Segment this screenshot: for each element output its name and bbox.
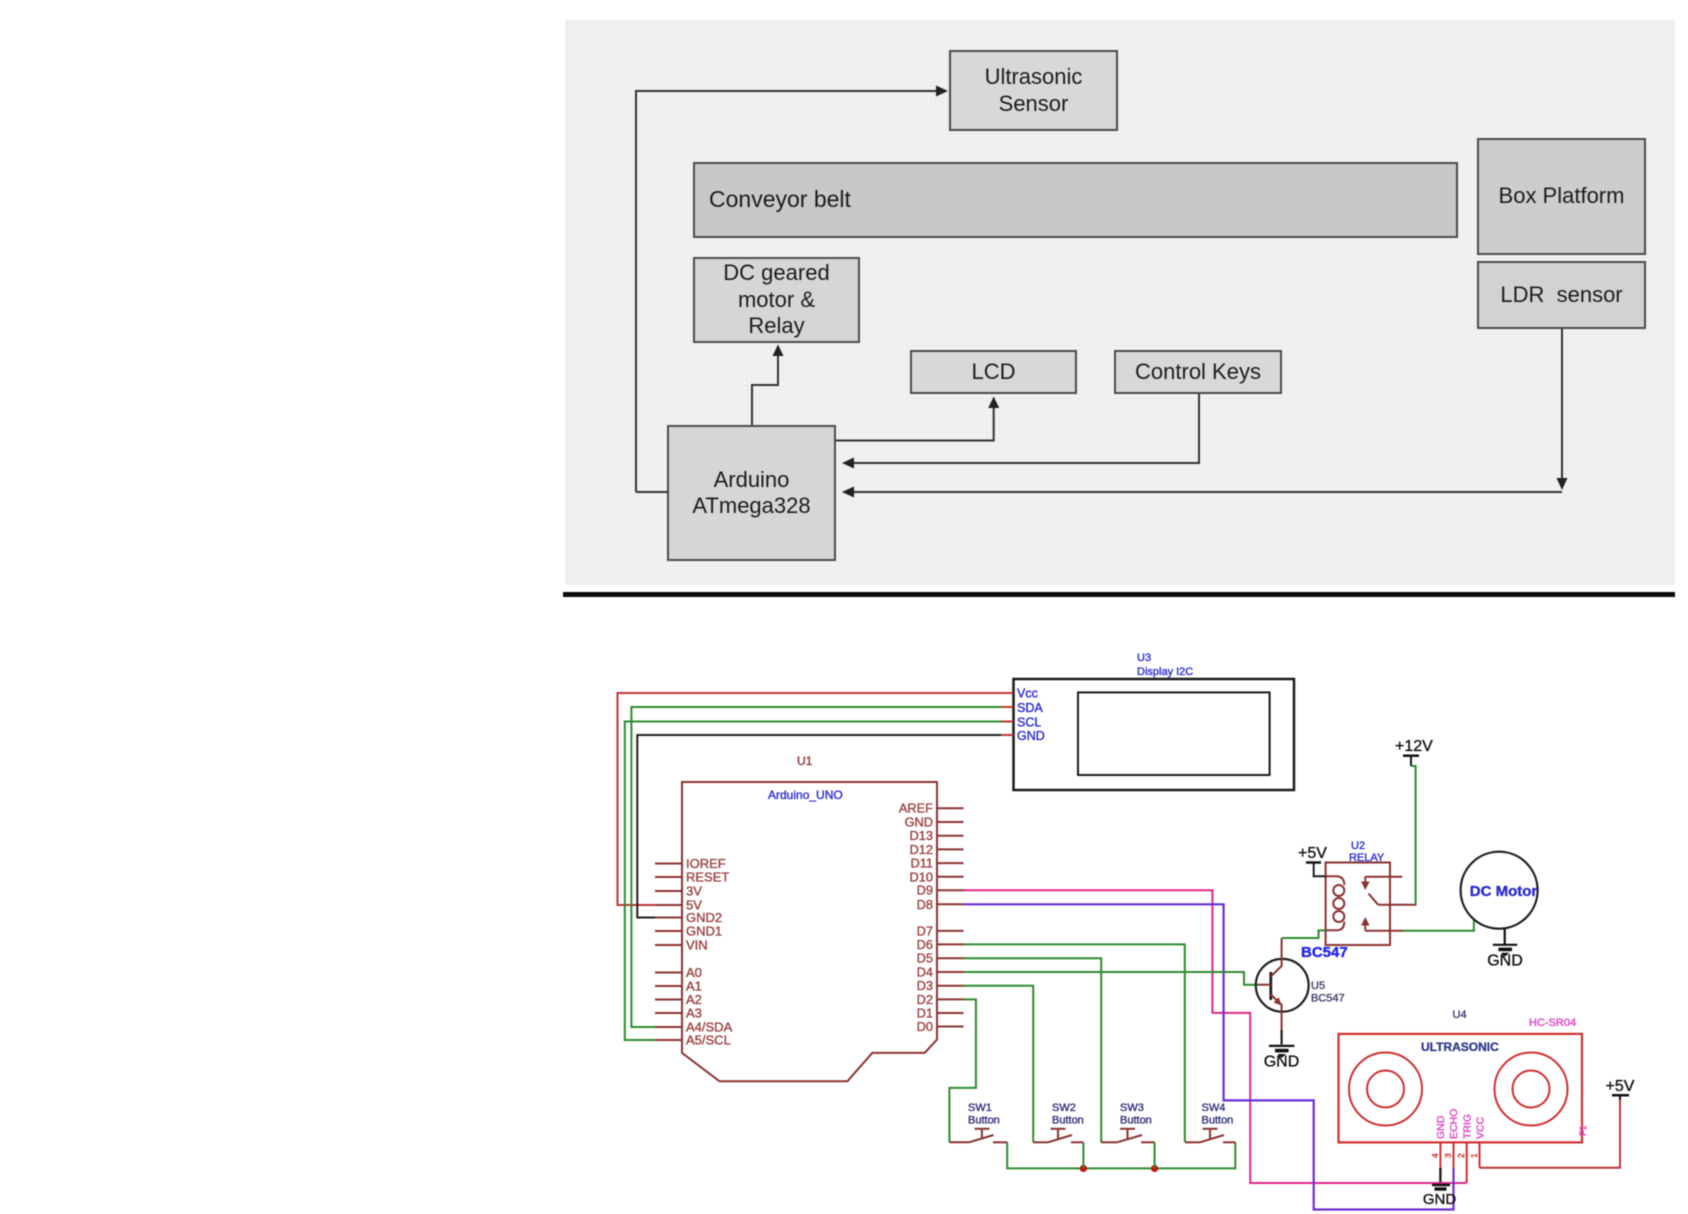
- svg-text:Button: Button: [1202, 1115, 1234, 1127]
- svg-text:4: 4: [1430, 1153, 1440, 1158]
- thick divider line: [563, 592, 1675, 597]
- U1 pin 5V stub: [655, 904, 682, 906]
- svg-text:2: 2: [1456, 1153, 1466, 1158]
- wire U4 GND pin to ground: [1439, 1168, 1441, 1182]
- relay contact down arrow: [1364, 877, 1366, 884]
- block: DC geared motor & Relay: [693, 257, 860, 343]
- svg-text:GND: GND: [1487, 953, 1523, 970]
- wire Arduino to DC geared motor: [752, 347, 778, 425]
- ground symbol under transistor: [1264, 1046, 1300, 1071]
- switch SW2: [1033, 1129, 1083, 1143]
- svg-text:A3: A3: [686, 1006, 702, 1021]
- U1 pin AREF stub: [937, 807, 964, 809]
- U3 pin SDA stub: [1001, 706, 1014, 708]
- wire D5 green to SW3: [964, 958, 1102, 1142]
- svg-text:U1: U1: [797, 754, 813, 768]
- U3 display inner screen: [1078, 692, 1270, 775]
- U1 pin RESET stub: [655, 876, 682, 878]
- transistor U5 circle: [1256, 959, 1309, 1012]
- relay up arrow: [1364, 923, 1366, 931]
- switch SW3: [1101, 1129, 1154, 1143]
- block: Control Keys: [1114, 350, 1282, 394]
- U1 pin A3 stub: [655, 1012, 682, 1014]
- svg-text:RESET: RESET: [686, 870, 729, 885]
- U3 pin Vcc stub: [1001, 692, 1014, 694]
- relay coil: [1326, 876, 1345, 930]
- svg-text:Button: Button: [1120, 1115, 1152, 1127]
- U4 pin VCC stub: [1479, 1142, 1481, 1167]
- svg-text:GND: GND: [1017, 729, 1045, 743]
- relay movable arm: [1369, 894, 1379, 905]
- U1 pin 3V stub: [655, 890, 682, 892]
- arrowhead into Ultrasonic Sensor: [936, 86, 948, 97]
- svg-text:Button: Button: [1052, 1115, 1084, 1127]
- svg-text:1: 1: [1469, 1153, 1479, 1158]
- wire D6 green to SW4: [964, 944, 1185, 1142]
- slide background: [565, 20, 1675, 585]
- U1 pin A5-SCL stub: [655, 1039, 682, 1041]
- transistor emitter with arrow: [1271, 995, 1282, 1031]
- wire emitter to ground: [1280, 1030, 1282, 1045]
- svg-text:GND: GND: [1435, 1115, 1447, 1139]
- U4 right transducer: [1495, 1053, 1568, 1126]
- U1 pin D4 stub: [937, 971, 964, 973]
- U1 pin A1 stub: [655, 985, 682, 987]
- block: Arduino ATmega328: [667, 425, 836, 561]
- svg-text:GND1: GND1: [686, 924, 722, 939]
- svg-text:VIN: VIN: [686, 938, 708, 953]
- svg-text:D9: D9: [917, 883, 933, 898]
- block: LCD: [910, 350, 1077, 394]
- svg-text:U3: U3: [1137, 652, 1151, 664]
- svg-text:Arduino_UNO: Arduino_UNO: [768, 788, 843, 802]
- svg-text:+5V: +5V: [1606, 1078, 1635, 1095]
- wire SDA green: [631, 707, 1002, 1027]
- svg-text:TRIG: TRIG: [1462, 1114, 1474, 1139]
- DC Motor circle: [1461, 852, 1538, 929]
- svg-text:Button: Button: [968, 1115, 1000, 1127]
- U1 pin GND2 stub: [655, 917, 682, 919]
- arrowhead into Arduino from LDR: [842, 487, 854, 498]
- svg-text:F1: F1: [1578, 1125, 1588, 1136]
- svg-text:ULTRASONIC: ULTRASONIC: [1421, 1040, 1499, 1054]
- arrowhead down from LDR: [1557, 478, 1568, 490]
- U1 pin GND stub: [937, 821, 964, 823]
- wire 5V red: [618, 693, 1003, 905]
- U1 pin IOREF stub: [655, 863, 682, 865]
- U1 pin D7 stub: [937, 930, 964, 932]
- svg-text:D6: D6: [917, 937, 933, 952]
- svg-text:RELAY: RELAY: [1349, 852, 1385, 864]
- U1 pin A4-SDA stub: [655, 1026, 682, 1028]
- wire motor to ground: [1504, 928, 1506, 944]
- svg-text:U2: U2: [1351, 840, 1365, 852]
- U1 pin GND1 stub: [655, 930, 682, 932]
- U1 Arduino UNO outline: [682, 782, 937, 1081]
- U1 pin D0 stub: [937, 1026, 964, 1028]
- svg-text:VCC: VCC: [1475, 1116, 1487, 1139]
- block: Ultrasonic Sensor: [949, 50, 1118, 131]
- svg-text:+12V: +12V: [1395, 738, 1433, 755]
- arrowhead into DC geared motor: [773, 345, 784, 357]
- svg-text:GND: GND: [1264, 1054, 1300, 1071]
- U1 pin D1 stub: [937, 1012, 964, 1014]
- svg-text:SW4: SW4: [1202, 1102, 1226, 1114]
- svg-text:DC Motor: DC Motor: [1470, 883, 1538, 900]
- svg-text:GND: GND: [1423, 1191, 1457, 1208]
- U4 pin TRIG stub: [1466, 1142, 1468, 1182]
- U4 ultrasonic body: [1339, 1034, 1583, 1143]
- svg-text:3V: 3V: [686, 884, 702, 899]
- switch SW4: [1185, 1129, 1235, 1143]
- wire GND2 black: [637, 735, 1002, 918]
- arrowhead into Arduino from Control Keys: [842, 458, 854, 469]
- transistor collector: [1271, 938, 1282, 977]
- block: Box Platform: [1477, 138, 1646, 255]
- svg-text:BC547: BC547: [1301, 944, 1348, 961]
- U1 pin D9 stub: [937, 889, 964, 891]
- wire SCL green: [625, 722, 1002, 1041]
- wire +5V to relay coil: [1314, 863, 1326, 877]
- ground symbol under motor: [1487, 945, 1523, 970]
- junction dot SW3: [1151, 1165, 1158, 1172]
- +12V power symbol: [1403, 754, 1419, 757]
- wire into Arduino left: [636, 491, 667, 493]
- svg-text:AREF: AREF: [899, 801, 933, 816]
- U1 pin D13 stub: [937, 835, 964, 837]
- svg-text:+5V: +5V: [1298, 845, 1327, 862]
- svg-text:SW1: SW1: [968, 1102, 992, 1114]
- wire collector to relay green: [1282, 930, 1326, 938]
- U1 pin A2 stub: [655, 999, 682, 1001]
- wire +12V green to relay common: [1411, 766, 1416, 905]
- wire Arduino to LCD: [836, 399, 994, 441]
- SW3 drop wire green: [1154, 1142, 1156, 1168]
- svg-text:U5: U5: [1311, 980, 1325, 992]
- junction dot SW2: [1080, 1165, 1087, 1172]
- wire Control Keys to Arduino: [844, 394, 1199, 463]
- U1 pin D11 stub: [937, 862, 964, 864]
- wire D9 pink to TRIG: [964, 890, 1467, 1183]
- U4 left transducer: [1349, 1053, 1422, 1126]
- block: Conveyor belt: [693, 162, 1458, 238]
- U3 pin GND stub: [1001, 734, 1014, 736]
- relay contact top pin: [1365, 876, 1402, 878]
- transistor base bar: [1269, 972, 1272, 1000]
- svg-text:SDA: SDA: [1017, 701, 1043, 715]
- U4 pin GND stub: [1439, 1142, 1441, 1167]
- svg-text:SW2: SW2: [1052, 1102, 1076, 1114]
- svg-text:3: 3: [1443, 1153, 1453, 1158]
- block: LDR sensor: [1477, 261, 1646, 329]
- wire D2 green to SW1: [949, 999, 976, 1142]
- relay common pin: [1378, 904, 1417, 906]
- relay bottom pin: [1365, 930, 1403, 932]
- wire LDR to Arduino: [1561, 329, 1563, 484]
- svg-text:BC547: BC547: [1311, 993, 1345, 1005]
- svg-text:D8: D8: [917, 897, 933, 912]
- svg-text:A5/SCL: A5/SCL: [686, 1033, 731, 1048]
- U1 pin D12 stub: [937, 848, 964, 850]
- wire D8 purple to ECHO: [964, 904, 1454, 1209]
- svg-text:D0: D0: [917, 1019, 933, 1034]
- U1 pin D10 stub: [937, 876, 964, 878]
- switch SW1: [949, 1129, 1007, 1143]
- svg-text:SCL: SCL: [1017, 716, 1041, 730]
- relay U2 body: [1326, 863, 1390, 946]
- wire relay to DC motor green: [1403, 920, 1474, 931]
- svg-text:D5: D5: [917, 951, 933, 966]
- wire VCC red to +5V: [1480, 1100, 1621, 1168]
- svg-text:Display I2C: Display I2C: [1137, 666, 1193, 678]
- ground symbol under U4: [1423, 1185, 1457, 1208]
- +5V power symbol right: [1612, 1094, 1629, 1097]
- U1 pin D2 stub: [937, 998, 964, 1000]
- U4 pin ECHO stub: [1453, 1142, 1455, 1167]
- U1 pin D3 stub: [937, 985, 964, 987]
- U1 pin VIN stub: [655, 944, 682, 946]
- svg-text:SW3: SW3: [1120, 1102, 1144, 1114]
- wire D4 green to transistor base: [964, 972, 1259, 985]
- U3 pin SCL stub: [1001, 721, 1014, 723]
- switches common rail green: [1007, 1142, 1235, 1168]
- wire Arduino to Ultrasonic (left vertical): [636, 91, 939, 492]
- svg-text:Vcc: Vcc: [1017, 687, 1038, 701]
- U1 pin D6 stub: [937, 943, 964, 945]
- U3 display outer box: [1014, 679, 1295, 790]
- wire D3 green to SW2: [964, 986, 1034, 1143]
- U1 pin D8 stub: [937, 903, 964, 905]
- SW2 drop wire green: [1082, 1142, 1084, 1168]
- arrowhead into LCD: [988, 397, 999, 409]
- U1 pin D5 stub: [937, 957, 964, 959]
- svg-text:HC-SR04: HC-SR04: [1529, 1017, 1576, 1029]
- U1 pin A0 stub: [655, 972, 682, 974]
- svg-text:ECHO: ECHO: [1448, 1109, 1460, 1139]
- +5V power symbol at relay: [1306, 861, 1321, 864]
- transistor base stub: [1259, 984, 1271, 986]
- svg-text:U4: U4: [1453, 1009, 1467, 1021]
